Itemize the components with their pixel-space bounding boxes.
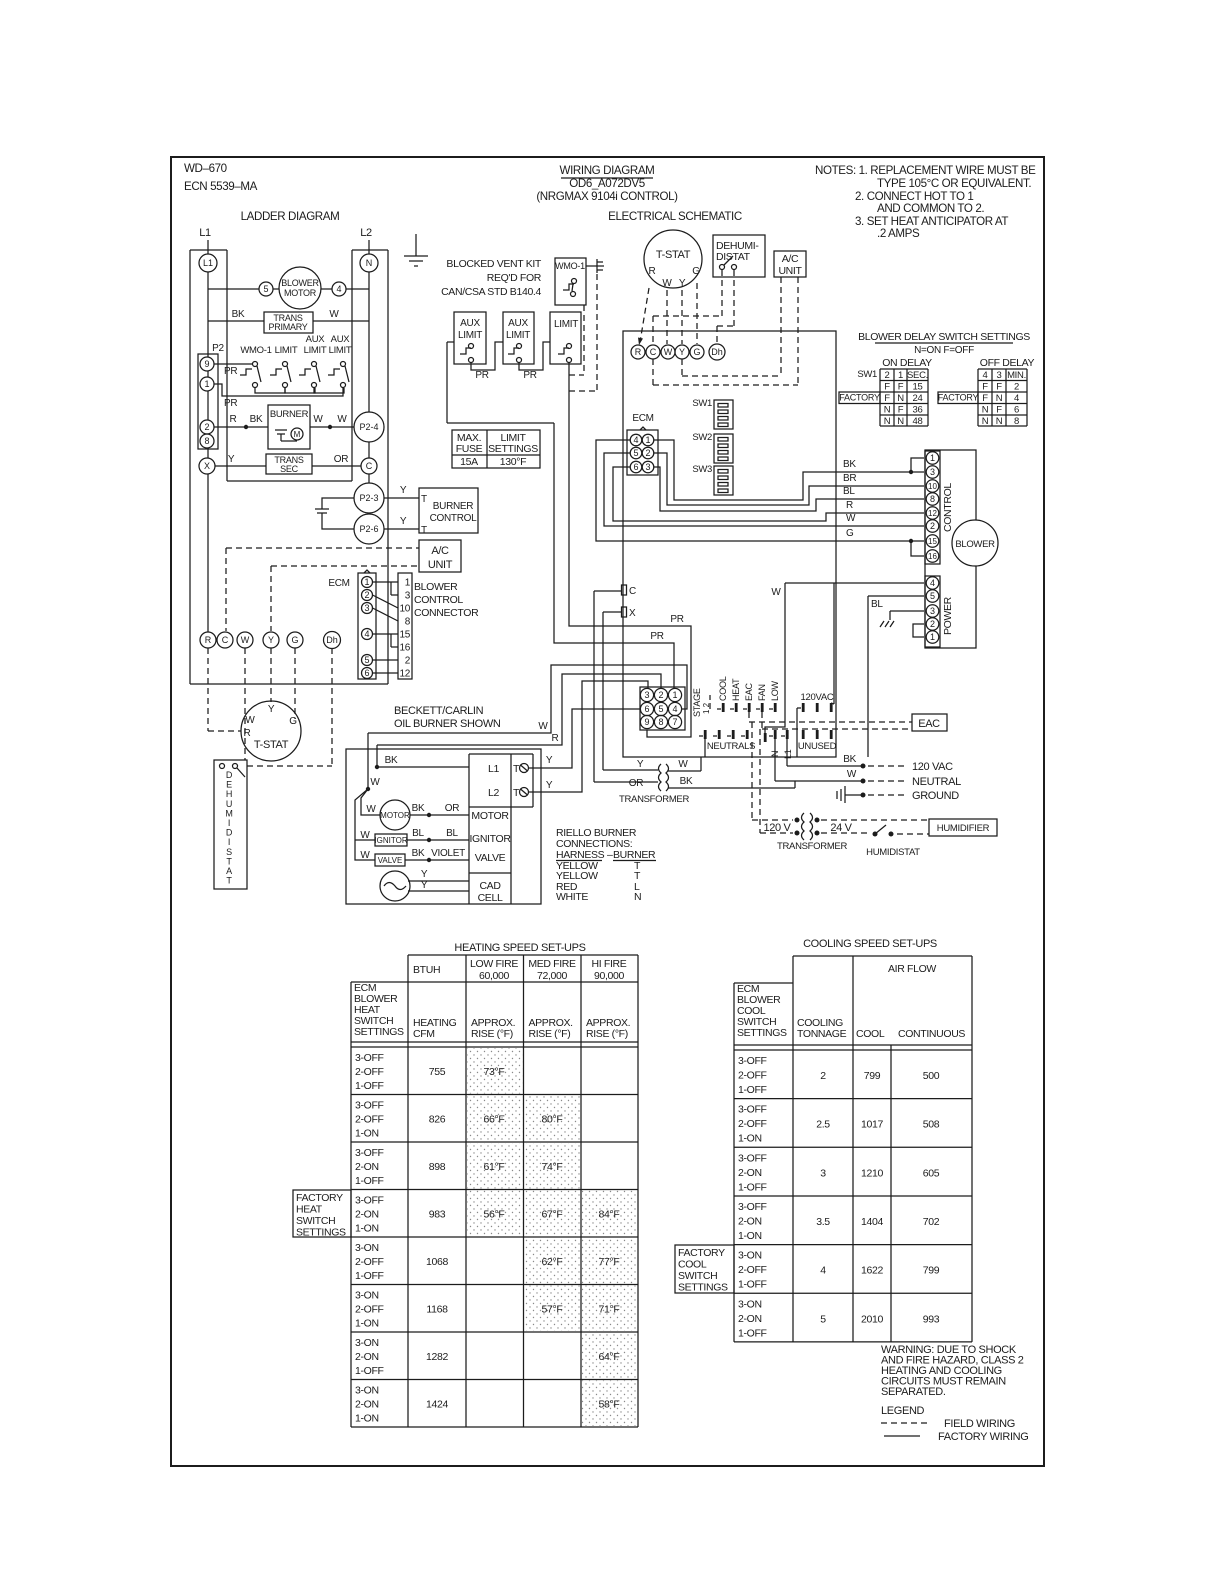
pin 5 [259, 282, 273, 296]
svg-text:1: 1 [405, 578, 411, 589]
factory cool switch settings box [675, 1245, 734, 1293]
svg-text:4: 4 [633, 435, 638, 445]
svg-text:5: 5 [820, 1313, 826, 1325]
switch limit [550, 312, 581, 364]
svg-text:10: 10 [399, 604, 410, 615]
svg-text:130°F: 130°F [500, 456, 526, 468]
svg-text:W: W [360, 850, 370, 861]
wire right rail [368, 272, 370, 412]
svg-text:FAN: FAN [757, 684, 767, 701]
svg-text:2: 2 [820, 1070, 826, 1082]
factory heat switch settings box [293, 1190, 351, 1237]
terminal C board [646, 345, 660, 359]
wire C [594, 590, 621, 592]
svg-text:BK: BK [843, 459, 856, 470]
svg-text:3-OFF: 3-OFF [355, 1100, 384, 1112]
svg-text:SETTINGS: SETTINGS [488, 443, 538, 455]
svg-text:Y: Y [546, 755, 553, 766]
svg-text:N: N [634, 891, 641, 903]
svg-text:3-ON: 3-ON [355, 1242, 379, 1254]
wire P2-3 to burner control [384, 497, 419, 499]
svg-text:LIMIT: LIMIT [458, 330, 482, 341]
svg-text:2-ON: 2-ON [738, 1167, 762, 1179]
pin 2 [654, 688, 667, 701]
svg-text:1-OFF: 1-OFF [355, 1080, 384, 1092]
svg-text:66°F: 66°F [484, 1114, 505, 1126]
svg-text:826: 826 [429, 1114, 446, 1126]
svg-text:HUMIDISTAT: HUMIDISTAT [866, 847, 920, 858]
wire W transformer [668, 770, 701, 772]
svg-text:T: T [226, 856, 232, 866]
svg-text:LIMIT: LIMIT [506, 330, 530, 341]
transformer primary [264, 312, 313, 333]
svg-text:I: I [228, 818, 230, 828]
svg-text:MOTOR: MOTOR [380, 811, 410, 820]
svg-text:2: 2 [930, 521, 935, 531]
wire rung 3 [214, 426, 268, 428]
svg-text:1-OFF: 1-OFF [355, 1365, 384, 1377]
svg-text:BLOWER: BLOWER [414, 581, 458, 593]
svg-text:15: 15 [913, 382, 923, 393]
svg-text:T: T [513, 787, 520, 799]
pin 2 [362, 590, 373, 601]
wire PR limit [569, 362, 691, 737]
svg-text:9: 9 [644, 717, 649, 727]
svg-text:WHITE: WHITE [556, 891, 588, 903]
blower assembly box [925, 450, 976, 648]
svg-text:NEUTRALS: NEUTRALS [707, 741, 755, 752]
pin 1 [642, 434, 654, 446]
svg-text:.2 AMPS: .2 AMPS [877, 227, 920, 240]
svg-text:16: 16 [399, 643, 410, 654]
svg-text:VALVE: VALVE [378, 856, 403, 865]
svg-text:56°F: 56°F [484, 1209, 505, 1221]
pin 5 [630, 447, 642, 459]
svg-text:C: C [629, 586, 636, 597]
svg-text:R: R [205, 635, 212, 645]
switch aux limit 1 [454, 312, 486, 364]
svg-text:120 VAC: 120 VAC [912, 761, 953, 773]
svg-text:LIMIT: LIMIT [275, 345, 298, 356]
svg-text:BTUH: BTUH [413, 964, 440, 976]
pin 4 [362, 629, 373, 640]
svg-text:3: 3 [405, 591, 411, 602]
svg-text:15: 15 [399, 630, 410, 641]
svg-text:2: 2 [658, 690, 663, 700]
svg-text:W: W [360, 830, 370, 841]
svg-text:1-ON: 1-ON [355, 1128, 379, 1140]
svg-text:EAC: EAC [744, 682, 754, 701]
svg-text:SW1: SW1 [857, 369, 877, 380]
svg-text:VIOLET: VIOLET [431, 848, 465, 859]
capacitor [275, 429, 287, 431]
svg-text:PR: PR [224, 398, 237, 409]
transformer humidifier [795, 818, 800, 823]
svg-text:P2-6: P2-6 [359, 524, 378, 534]
motor M [291, 428, 303, 440]
svg-text:L1: L1 [488, 763, 499, 775]
svg-text:BL: BL [871, 599, 883, 610]
svg-text:N: N [982, 405, 989, 416]
svg-text:WMO-1: WMO-1 [240, 345, 271, 356]
svg-text:36: 36 [913, 405, 923, 416]
svg-text:FACTORY WIRING: FACTORY WIRING [938, 1431, 1028, 1443]
svg-text:2010: 2010 [861, 1313, 883, 1325]
wire rung 2 [208, 320, 264, 322]
svg-text:G: G [692, 266, 700, 277]
svg-text:CAD: CAD [479, 880, 501, 892]
burner terminal block [468, 754, 470, 904]
svg-text:3-ON: 3-ON [355, 1385, 379, 1397]
svg-text:COOL: COOL [718, 676, 728, 701]
wire Y tstat dashed [681, 290, 683, 344]
svg-text:C: C [222, 635, 229, 645]
svg-text:605: 605 [923, 1167, 940, 1179]
wire switches to pin 1 [214, 384, 343, 396]
wire G tstat dashed [696, 283, 698, 344]
svg-text:2-ON: 2-ON [738, 1313, 762, 1325]
svg-text:BECKETT/CARLIN: BECKETT/CARLIN [394, 705, 484, 717]
off delay table [977, 369, 979, 426]
svg-text:80°F: 80°F [542, 1114, 563, 1126]
thermostat T-STAT ladder [241, 701, 301, 761]
pin 6 [640, 702, 653, 715]
switch contact 4 [341, 362, 346, 367]
pin 2 [926, 618, 939, 631]
AC unit ladder [419, 540, 461, 572]
switch WMO-1 [555, 258, 586, 305]
svg-text:84°F: 84°F [599, 1209, 620, 1221]
svg-text:LIMIT: LIMIT [304, 345, 327, 356]
svg-text:1-ON: 1-ON [738, 1133, 762, 1145]
svg-text:61°F: 61°F [484, 1161, 505, 1173]
svg-text:1-OFF: 1-OFF [738, 1181, 767, 1193]
humidifier circuit dashed [751, 722, 753, 820]
svg-text:1068: 1068 [426, 1256, 448, 1268]
svg-text:3-OFF: 3-OFF [738, 1152, 767, 1164]
terminal R board [631, 345, 645, 359]
svg-text:R: R [649, 266, 656, 277]
svg-text:BL: BL [446, 828, 458, 839]
svg-text:8: 8 [1014, 416, 1019, 427]
pin 1 [668, 688, 681, 701]
svg-text:CONNECTOR: CONNECTOR [414, 607, 479, 619]
svg-text:W: W [538, 721, 548, 732]
svg-text:MOTOR: MOTOR [471, 810, 509, 822]
svg-text:6: 6 [644, 704, 649, 714]
svg-text:2-OFF: 2-OFF [355, 1304, 384, 1316]
wire rung 1 [208, 288, 259, 290]
svg-text:UNUSED: UNUSED [798, 741, 837, 752]
svg-text:24: 24 [913, 393, 923, 404]
svg-text:W: W [662, 278, 672, 289]
svg-text:Y: Y [268, 635, 274, 645]
svg-text:N=ON F=OFF: N=ON F=OFF [914, 345, 974, 356]
svg-text:3-OFF: 3-OFF [738, 1055, 767, 1067]
svg-text:FACTORY: FACTORY [296, 1192, 343, 1204]
svg-text:SETTINGS: SETTINGS [678, 1282, 728, 1294]
svg-text:7: 7 [672, 717, 677, 727]
terminal R [200, 632, 216, 648]
terminal Y [263, 632, 279, 648]
svg-text:PR: PR [670, 614, 683, 625]
svg-text:A/C: A/C [431, 545, 449, 557]
svg-text:TRANSFORMER: TRANSFORMER [777, 841, 848, 852]
svg-text:1: 1 [898, 370, 903, 381]
svg-text:N: N [366, 258, 373, 268]
svg-text:D: D [226, 770, 233, 780]
svg-text:DISTAT: DISTAT [716, 251, 751, 263]
svg-text:120VAC: 120VAC [801, 692, 834, 703]
svg-text:F: F [996, 382, 1002, 393]
svg-text:STAGE: STAGE [692, 688, 702, 717]
svg-text:4: 4 [930, 578, 935, 588]
svg-text:SETTINGS: SETTINGS [737, 1027, 787, 1039]
terminal P2-6 [354, 514, 384, 544]
svg-text:799: 799 [923, 1265, 940, 1277]
svg-text:LEGEND: LEGEND [881, 1405, 925, 1417]
svg-text:U: U [226, 799, 232, 809]
pin 2 [200, 420, 214, 434]
wire Y to AC dashed [271, 565, 419, 567]
dehumidistat ladder [214, 760, 247, 889]
field connection 120 VAC [786, 739, 788, 766]
svg-text:F: F [884, 393, 890, 404]
transformer 24V [659, 764, 662, 791]
svg-text:1168: 1168 [426, 1304, 448, 1316]
dehumidistat schematic [713, 235, 765, 277]
svg-text:PR: PR [224, 366, 237, 377]
svg-text:Y: Y [637, 759, 644, 770]
svg-text:BK: BK [412, 803, 425, 814]
svg-text:15: 15 [928, 537, 937, 546]
svg-text:1210: 1210 [861, 1167, 883, 1179]
pin 8 [926, 493, 939, 506]
svg-text:T: T [513, 763, 520, 775]
svg-text:F: F [898, 405, 904, 416]
terminal W board [661, 345, 675, 359]
svg-text:1: 1 [645, 435, 650, 445]
svg-text:VALVE: VALVE [475, 852, 506, 864]
svg-text:F: F [898, 382, 904, 393]
svg-text:CONTROL: CONTROL [414, 594, 463, 606]
svg-text:T-STAT: T-STAT [656, 249, 691, 261]
svg-text:8: 8 [930, 494, 935, 504]
pin 4 [926, 577, 939, 590]
wire R tstat dashed [640, 288, 649, 342]
svg-text:COOL: COOL [678, 1259, 707, 1271]
svg-text:C: C [366, 461, 373, 471]
svg-text:UNIT: UNIT [428, 559, 453, 571]
svg-text:3-ON: 3-ON [738, 1298, 762, 1310]
svg-text:BR: BR [843, 473, 856, 484]
svg-text:5: 5 [633, 448, 638, 458]
svg-text:W: W [664, 347, 673, 357]
terminal L1 [199, 254, 217, 272]
switch aux limit 2 [503, 312, 534, 364]
ground [415, 234, 417, 256]
svg-text:2: 2 [645, 448, 650, 458]
connector P2 [198, 354, 218, 449]
svg-text:6: 6 [1014, 405, 1019, 416]
svg-text:W: W [366, 804, 376, 815]
svg-text:755: 755 [429, 1066, 446, 1078]
svg-text:CELL: CELL [478, 892, 503, 904]
control board box [623, 331, 836, 757]
svg-text:L1: L1 [199, 227, 211, 239]
terminal P2-3 [354, 483, 384, 513]
svg-text:120 V: 120 V [764, 822, 792, 834]
terminal W [237, 632, 253, 648]
svg-text:REQ'D FOR: REQ'D FOR [487, 272, 542, 284]
terminal L1 [786, 730, 789, 739]
ground power [890, 610, 924, 612]
terminal G [287, 632, 303, 648]
svg-text:F: F [884, 382, 890, 393]
svg-text:3-OFF: 3-OFF [355, 1195, 384, 1207]
svg-text:1: 1 [930, 632, 935, 642]
svg-text:702: 702 [923, 1216, 940, 1228]
svg-text:FACTORY: FACTORY [938, 393, 979, 403]
svg-text:2-OFF: 2-OFF [738, 1118, 767, 1130]
wire X [603, 611, 621, 613]
svg-text:57°F: 57°F [542, 1304, 563, 1316]
svg-text:CONTROL: CONTROL [942, 483, 954, 532]
pin 8 [200, 434, 214, 448]
svg-text:4: 4 [336, 284, 341, 294]
pin 2 [642, 447, 654, 459]
svg-text:UNIT: UNIT [778, 265, 802, 277]
svg-text:PR: PR [475, 370, 488, 381]
svg-text:898: 898 [429, 1161, 446, 1173]
svg-text:COOLING SPEED SET-UPS: COOLING SPEED SET-UPS [803, 938, 937, 950]
wire Y dashed [270, 648, 272, 702]
svg-text:1-OFF: 1-OFF [355, 1270, 384, 1282]
pin 1 [926, 631, 939, 644]
wire R [613, 467, 924, 521]
svg-text:SWITCH: SWITCH [678, 1270, 717, 1282]
svg-text:F: F [982, 393, 988, 404]
svg-text:500: 500 [923, 1070, 940, 1082]
transformer secondary [266, 454, 312, 474]
svg-text:IGNITOR: IGNITOR [374, 836, 407, 845]
svg-text:LOW: LOW [770, 680, 780, 701]
svg-text:W: W [846, 513, 856, 524]
screw terminal T2 [520, 788, 529, 797]
connector POWER [925, 576, 940, 647]
svg-text:HI FIRE: HI FIRE [592, 958, 627, 970]
svg-text:T: T [421, 525, 427, 536]
pin 10 [926, 480, 939, 493]
svg-text:3: 3 [930, 606, 935, 616]
svg-text:62°F: 62°F [542, 1256, 563, 1268]
svg-text:HEAT: HEAT [731, 678, 741, 701]
svg-text:AND COMMON TO 2.: AND COMMON TO 2. [877, 202, 984, 215]
svg-text:8: 8 [658, 717, 663, 727]
svg-text:2-OFF: 2-OFF [738, 1070, 767, 1082]
field connection NEUTRAL [774, 739, 776, 781]
pin 9 [640, 715, 653, 728]
pin 5 [926, 590, 939, 603]
svg-text:1-OFF: 1-OFF [738, 1327, 767, 1339]
pin 4 [332, 282, 346, 296]
svg-text:Y: Y [679, 278, 686, 289]
burner motor [380, 800, 410, 830]
terminal Dh [324, 632, 341, 649]
burner box [268, 405, 310, 449]
pin 5 [362, 655, 373, 666]
wire Y transformer [603, 769, 658, 771]
svg-text:BK: BK [385, 755, 398, 766]
wire OR transformer [594, 781, 658, 783]
svg-text:WIRING DIAGRAM: WIRING DIAGRAM [560, 164, 655, 177]
pin 6 [630, 461, 642, 473]
svg-text:8: 8 [405, 617, 411, 628]
cad cell [380, 871, 410, 901]
connector STAGE [640, 687, 685, 730]
burner valve [375, 854, 405, 866]
svg-text:4: 4 [364, 629, 369, 639]
svg-text:NOTES: 1. REPLACEMENT WIRE MUS: NOTES: 1. REPLACEMENT WIRE MUST BE [815, 164, 1036, 177]
svg-text:Y: Y [400, 516, 407, 527]
svg-text:WMO-1: WMO-1 [555, 261, 585, 271]
wire W burner to stage [368, 665, 687, 733]
wire BK transformer [668, 787, 795, 789]
blower motor [279, 267, 321, 309]
svg-text:4: 4 [1014, 393, 1019, 404]
svg-text:GROUND: GROUND [912, 790, 959, 802]
svg-text:1017: 1017 [861, 1119, 883, 1131]
svg-text:FUSE: FUSE [456, 443, 483, 455]
svg-text:LOW FIRE: LOW FIRE [470, 958, 518, 970]
svg-text:L1: L1 [203, 258, 213, 268]
svg-text:2: 2 [405, 656, 411, 667]
svg-text:1: 1 [204, 379, 209, 389]
svg-text:8: 8 [204, 436, 209, 446]
svg-text:HUMIDIFIER: HUMIDIFIER [937, 823, 990, 834]
svg-text:W: W [847, 769, 857, 780]
svg-text:R: R [552, 733, 559, 744]
svg-text:BLOWER: BLOWER [955, 539, 995, 550]
svg-text:3-ON: 3-ON [355, 1290, 379, 1302]
svg-text:4: 4 [820, 1265, 826, 1277]
svg-text:P2-3: P2-3 [359, 493, 378, 503]
wires ECM to connector [373, 581, 399, 583]
svg-text:ECM: ECM [632, 413, 653, 424]
pin 1 [926, 452, 939, 465]
blower control connector pins [398, 573, 412, 679]
pin 12 [926, 507, 939, 520]
svg-text:9: 9 [204, 359, 209, 369]
terminal X [199, 458, 215, 474]
svg-text:(NRGMAX 9104i CONTROL): (NRGMAX 9104i CONTROL) [536, 190, 678, 203]
wire pins 2-1 [913, 624, 924, 637]
wire W tstat dashed [666, 290, 668, 344]
svg-text:2: 2 [364, 590, 369, 600]
pin 6 [362, 668, 373, 679]
wire C to AC dashed [226, 547, 419, 549]
EAC wiring dashed [748, 712, 750, 722]
svg-text:G: G [289, 716, 297, 727]
svg-text:G: G [693, 347, 700, 357]
svg-text:4: 4 [983, 370, 988, 381]
svg-text:Y: Y [546, 780, 553, 791]
svg-text:F: F [996, 405, 1002, 416]
burner ignitor [375, 834, 407, 846]
svg-text:BK: BK [412, 848, 425, 859]
svg-text:SWITCH: SWITCH [296, 1215, 335, 1227]
svg-text:SETTINGS: SETTINGS [354, 1026, 404, 1038]
